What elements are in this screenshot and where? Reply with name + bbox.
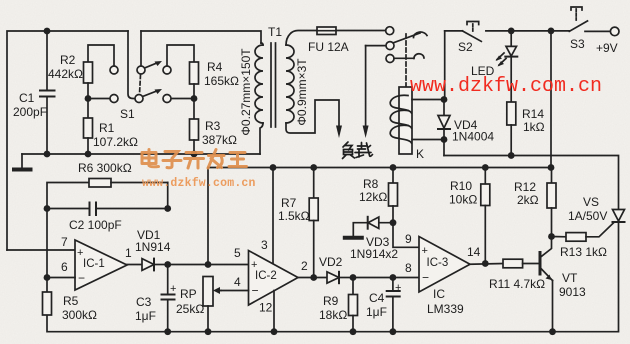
svg-text:8: 8 (405, 261, 412, 275)
node IC-2 out (310, 274, 317, 281)
svg-text:1μF: 1μF (135, 309, 156, 323)
svg-text:LM339: LM339 (427, 302, 464, 316)
node C2 right (164, 205, 171, 212)
capacitor C2 (47, 208, 90, 210)
thyristor VS (613, 210, 625, 222)
svg-text:12: 12 (259, 301, 273, 315)
node C4 bottom (390, 328, 397, 335)
svg-text:200pF: 200pF (13, 105, 47, 119)
svg-text:FU 12A: FU 12A (308, 40, 349, 54)
svg-text:R6 300kΩ: R6 300kΩ (78, 161, 132, 175)
wire R2 bottom to S1 contact (88, 98, 110, 100)
switch S1 gang link (140, 75, 141, 94)
svg-text:1.5kΩ: 1.5kΩ (278, 209, 310, 223)
svg-text:R9: R9 (323, 294, 339, 308)
svg-text:K: K (416, 147, 424, 161)
svg-text:R8: R8 (363, 177, 379, 191)
node C4 top (390, 274, 397, 281)
node R9 top (350, 274, 357, 281)
svg-text:300kΩ: 300kΩ (62, 308, 97, 322)
svg-text:R10: R10 (450, 179, 472, 193)
svg-text:7: 7 (61, 235, 68, 249)
wire V+ mid rail (208, 168, 551, 265)
svg-text:VT: VT (562, 271, 578, 285)
op-amp IC-2 (249, 251, 299, 306)
svg-text:18kΩ: 18kΩ (319, 308, 347, 322)
LED (510, 31, 512, 47)
resistor R7 (313, 168, 315, 199)
resistor R12 (551, 168, 553, 184)
node R10 top (482, 164, 489, 171)
wire IC-2 pin4 wiper (221, 290, 249, 292)
node IC-3 out (482, 260, 489, 267)
svg-text:R1: R1 (99, 121, 115, 135)
wire IC-3 pin9 (393, 223, 419, 248)
switch S1 blade upper (145, 63, 159, 69)
resistor R11 (503, 259, 523, 268)
resistor R10 (484, 168, 486, 185)
terminal +9V (610, 27, 619, 36)
svg-text:−: − (252, 284, 259, 298)
op-amp IC-3 (419, 237, 470, 293)
node emitter bottom (549, 328, 556, 335)
svg-text:14: 14 (467, 245, 481, 259)
svg-text:1A/50V: 1A/50V (568, 209, 607, 223)
svg-text:1N4004: 1N4004 (452, 130, 494, 144)
wire IC-3 output (470, 263, 503, 266)
wire left ground rail (22, 153, 260, 155)
node rail end (548, 164, 555, 171)
svg-text:IC-3: IC-3 (427, 257, 449, 269)
relay moving blade (394, 33, 420, 43)
wire top rail right segment (141, 31, 261, 43)
svg-text:C2 100pF: C2 100pF (69, 218, 122, 232)
svg-text:+: + (422, 245, 428, 257)
node VD4 top (441, 96, 448, 103)
fuse FU (317, 27, 336, 35)
svg-text:IC: IC (433, 287, 445, 301)
svg-text:+9V: +9V (596, 41, 618, 55)
svg-text:1kΩ: 1kΩ (523, 120, 545, 134)
switch S2 (445, 30, 463, 32)
resistor R14 (507, 102, 516, 125)
svg-text:5: 5 (234, 246, 241, 260)
ground (21, 154, 23, 168)
switch S1 blade lower (143, 91, 159, 97)
resistor R5 (46, 278, 48, 293)
svg-text:VD2: VD2 (319, 255, 343, 269)
diode VD4 (444, 31, 446, 100)
capacitor C4 (392, 278, 394, 292)
capacitor C1 (46, 31, 48, 91)
resistor R3 (193, 99, 195, 120)
ground VD3 (345, 236, 362, 240)
svg-text:165kΩ: 165kΩ (204, 74, 239, 88)
relay armature link (405, 34, 407, 86)
wire top-left rail (7, 31, 128, 250)
node LED top (508, 28, 515, 35)
svg-text:VS: VS (583, 195, 599, 209)
svg-text:442kΩ: 442kΩ (48, 67, 83, 81)
wire S2 to S3 (511, 30, 569, 32)
load arrow 1 (336, 126, 342, 139)
svg-text:R13 1kΩ: R13 1kΩ (560, 245, 607, 259)
svg-text:2kΩ: 2kΩ (517, 193, 539, 207)
node C3 bottom (164, 328, 171, 335)
svg-text:R5: R5 (63, 294, 79, 308)
load arrow 2 (365, 46, 367, 127)
svg-text:C1: C1 (19, 91, 35, 105)
node VD1 out (164, 261, 171, 268)
switch S1 pole1 feed from right rail (140, 31, 142, 66)
svg-text:S3: S3 (570, 37, 585, 51)
load label 负载 (343, 142, 373, 159)
svg-text:www.dzkfw.com.cn: www.dzkfw.com.cn (142, 177, 256, 190)
switch S1 contacts (110, 66, 118, 74)
node pin12 rail (271, 328, 278, 335)
wire IC-1 pin7 (7, 249, 75, 251)
node VD4 bottom (441, 136, 448, 143)
svg-text:C3: C3 (136, 295, 152, 309)
svg-text:107.2kΩ: 107.2kΩ (93, 135, 138, 149)
wire to C4 and pin8 (353, 277, 419, 279)
wire K coil bottom to VD4 (412, 139, 444, 141)
resistor R2 (88, 45, 114, 66)
svg-text:387kΩ: 387kΩ (202, 133, 237, 147)
svg-text:T1: T1 (268, 25, 282, 39)
watermark 电子开发王 (142, 150, 247, 169)
svg-text:9: 9 (405, 232, 412, 246)
svg-text:+: + (395, 282, 401, 294)
svg-text:−: − (78, 271, 85, 285)
node S3 feed (548, 28, 555, 35)
relay throw contact hook (394, 57, 414, 59)
svg-text:R7: R7 (281, 196, 297, 210)
node C1 top (44, 28, 51, 35)
svg-text:+: + (170, 283, 176, 295)
svg-text:6: 6 (61, 260, 68, 274)
node pin3 rail (270, 164, 277, 171)
node R4 bottom (191, 95, 198, 102)
node R9 bottom (350, 328, 357, 335)
svg-text:12kΩ: 12kΩ (359, 190, 387, 204)
resistor R6 (89, 179, 111, 188)
transformer T1 core (270, 43, 272, 127)
svg-text:S2: S2 (458, 40, 473, 54)
svg-text:www.dzkfw.com.cn: www.dzkfw.com.cn (410, 75, 602, 98)
node RP top (205, 261, 212, 268)
svg-text:R11 4.7kΩ: R11 4.7kΩ (489, 277, 545, 291)
resistor R8 (392, 168, 394, 184)
svg-text:R4: R4 (207, 60, 223, 74)
svg-text:4: 4 (234, 275, 241, 289)
svg-text:3: 3 (261, 238, 268, 252)
svg-text:R3: R3 (205, 119, 221, 133)
svg-text:RP: RP (180, 287, 197, 301)
diode VD3 (379, 222, 393, 224)
svg-text:1: 1 (125, 246, 132, 260)
relay K coil (399, 87, 412, 154)
switch S1 pole2 feed from left rail (128, 31, 135, 99)
node R1 bottom (85, 151, 92, 158)
svg-text:1N914: 1N914 (135, 240, 171, 254)
wire IC-2 pin12 (273, 291, 275, 332)
svg-text:Φ0.9mm×3T: Φ0.9mm×3T (295, 58, 309, 126)
wire feedback left branch (47, 183, 89, 278)
transformer T1 secondary winding (286, 45, 294, 123)
node R2 bottom (85, 95, 92, 102)
node C1 bottom (44, 151, 51, 158)
wire VD1 out to IC-2 pin5 (168, 264, 249, 266)
svg-text:S1: S1 (120, 107, 135, 121)
svg-text:Φ0.27mm×150T: Φ0.27mm×150T (239, 48, 253, 136)
relay contact circles (386, 27, 394, 35)
diode VD2 (327, 272, 339, 283)
svg-text:R2: R2 (60, 53, 76, 67)
resistor R4 (167, 45, 194, 66)
transformer T1 primary winding (255, 45, 263, 123)
wire IC-1 pin6 (47, 277, 75, 279)
svg-text:C4: C4 (369, 291, 385, 305)
node RP bottom (205, 328, 212, 335)
switch S3 (569, 21, 587, 32)
wire S1 contact to R4 bottom (171, 98, 194, 100)
svg-text:9013: 9013 (559, 285, 586, 299)
diode VD1 (127, 264, 142, 266)
wire VD4 bottom to right edge (444, 156, 619, 210)
capacitor C3 (167, 265, 169, 295)
node pin6 (44, 274, 51, 281)
wire IC-2 output (298, 277, 327, 279)
svg-text:−: − (422, 271, 429, 285)
wire +9V feed down (550, 31, 552, 168)
wire K coil top to VD4 (412, 99, 444, 101)
potentiometer RP (203, 277, 213, 307)
node VD3 junction (390, 219, 397, 226)
wire IC-2 pin3 (272, 168, 274, 264)
wire relay contact 2 to load (366, 45, 386, 47)
svg-text:IC-2: IC-2 (255, 270, 277, 282)
svg-text:R12: R12 (514, 180, 536, 194)
resistor R13 (552, 236, 567, 238)
resistor R9 (352, 278, 354, 295)
svg-text:R14: R14 (522, 107, 544, 121)
node C2 left (44, 205, 51, 212)
node R7 top (310, 164, 317, 171)
wire bottom rail (47, 222, 619, 332)
svg-text:10kΩ: 10kΩ (449, 193, 477, 207)
svg-text:IC-1: IC-1 (83, 258, 105, 270)
node R14 bottom (508, 152, 515, 159)
transistor VT (539, 253, 542, 275)
svg-text:25kΩ: 25kΩ (176, 302, 204, 316)
node R8 top (390, 164, 397, 171)
node R3 bottom (191, 151, 198, 158)
svg-text:1N914x2: 1N914x2 (350, 247, 398, 261)
op-amp IC-1 (75, 240, 127, 290)
svg-text:2: 2 (301, 259, 308, 273)
node collector (548, 233, 555, 240)
svg-text:1μF: 1μF (366, 305, 387, 319)
resistor R1 (87, 99, 89, 119)
